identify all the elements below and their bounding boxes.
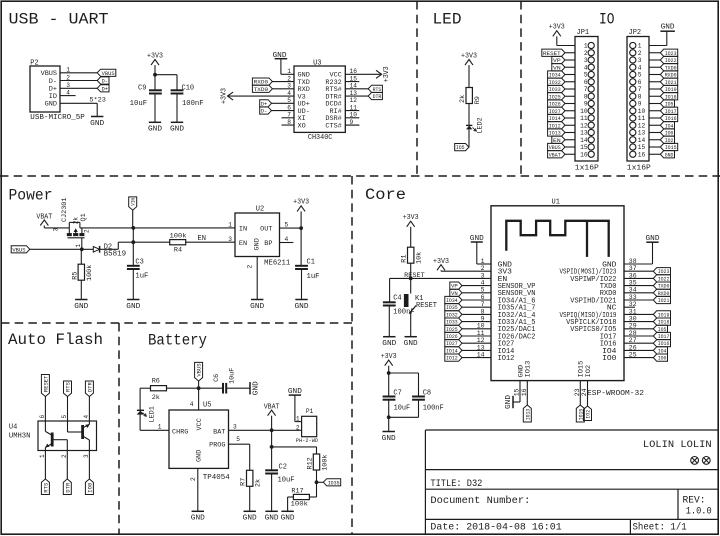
svg-text:LED: LED bbox=[433, 11, 462, 29]
svg-text:RXD0: RXD0 bbox=[658, 290, 670, 297]
svg-text:C7: C7 bbox=[393, 389, 401, 397]
svg-text:Battery: Battery bbox=[148, 332, 207, 350]
svg-text:12: 12 bbox=[350, 97, 358, 104]
svg-text:VBUS: VBUS bbox=[12, 246, 26, 253]
svg-text:IO14: IO14 bbox=[446, 347, 458, 354]
svg-text:R4: R4 bbox=[174, 247, 182, 255]
svg-text:5*23: 5*23 bbox=[89, 97, 106, 104]
svg-text:IO18: IO18 bbox=[658, 319, 670, 326]
svg-text:U4: U4 bbox=[9, 424, 17, 432]
svg-text:13: 13 bbox=[580, 130, 588, 137]
svg-text:IO21: IO21 bbox=[658, 297, 670, 304]
svg-text:R1: R1 bbox=[401, 255, 409, 263]
svg-text:VBUS: VBUS bbox=[41, 70, 57, 77]
svg-text:1uF: 1uF bbox=[135, 272, 148, 280]
svg-text:VBAT: VBAT bbox=[549, 151, 561, 158]
svg-text:IO14: IO14 bbox=[549, 115, 561, 122]
svg-text:15: 15 bbox=[580, 144, 588, 151]
svg-text:3: 3 bbox=[584, 57, 588, 64]
svg-text:R7: R7 bbox=[240, 478, 248, 486]
svg-text:IO27: IO27 bbox=[446, 340, 458, 347]
svg-text:IO26: IO26 bbox=[549, 101, 561, 108]
svg-text:IO33: IO33 bbox=[446, 319, 458, 326]
svg-text:10: 10 bbox=[638, 108, 646, 115]
svg-text:REV:: REV: bbox=[683, 495, 706, 506]
svg-text:VCC: VCC bbox=[330, 72, 342, 79]
svg-text:9: 9 bbox=[638, 101, 642, 108]
svg-text:VN: VN bbox=[451, 290, 458, 297]
svg-text:100k: 100k bbox=[170, 232, 187, 240]
svg-text:1: 1 bbox=[75, 244, 82, 248]
svg-text:UD-: UD- bbox=[298, 108, 310, 115]
svg-text:IO35: IO35 bbox=[328, 479, 340, 486]
svg-text:4: 4 bbox=[190, 401, 194, 408]
svg-text:1: 1 bbox=[228, 222, 232, 229]
svg-text:100k: 100k bbox=[321, 454, 329, 470]
svg-text:IO13: IO13 bbox=[524, 409, 531, 421]
svg-text:R6: R6 bbox=[152, 377, 160, 385]
svg-text:VIN: VIN bbox=[130, 198, 137, 206]
svg-text:EN: EN bbox=[239, 240, 247, 247]
svg-text:IO0: IO0 bbox=[86, 482, 93, 493]
svg-text:LED2: LED2 bbox=[477, 117, 485, 133]
svg-text:+3V3: +3V3 bbox=[293, 199, 309, 207]
svg-text:GND: GND bbox=[170, 126, 184, 134]
svg-text:R5: R5 bbox=[71, 272, 79, 280]
svg-text:IO27: IO27 bbox=[549, 108, 561, 115]
svg-text:IO32: IO32 bbox=[446, 311, 458, 318]
svg-text:C9: C9 bbox=[138, 85, 146, 93]
svg-text:IO12: IO12 bbox=[446, 355, 458, 362]
svg-text:JP1: JP1 bbox=[577, 29, 590, 37]
svg-text:IO0: IO0 bbox=[658, 355, 667, 362]
svg-text:3: 3 bbox=[83, 454, 90, 458]
svg-text:UD+: UD+ bbox=[298, 101, 310, 108]
svg-text:GND: GND bbox=[505, 395, 513, 409]
svg-text:6: 6 bbox=[638, 79, 642, 86]
svg-text:8: 8 bbox=[584, 93, 588, 100]
svg-text:+3V3: +3V3 bbox=[383, 66, 391, 82]
svg-text:DSR#: DSR# bbox=[325, 115, 341, 122]
svg-text:GND: GND bbox=[191, 515, 205, 523]
svg-text:C2: C2 bbox=[279, 464, 287, 472]
svg-text:4: 4 bbox=[83, 415, 90, 419]
svg-text:100nF: 100nF bbox=[423, 405, 444, 413]
svg-text:1x16P: 1x16P bbox=[627, 164, 651, 172]
svg-text:UMH3N: UMH3N bbox=[9, 433, 30, 441]
svg-text:IO2: IO2 bbox=[585, 364, 592, 377]
svg-text:DTR#: DTR# bbox=[325, 93, 341, 100]
svg-text:IO32: IO32 bbox=[549, 79, 561, 86]
svg-text:7: 7 bbox=[584, 86, 588, 93]
svg-text:14: 14 bbox=[580, 137, 588, 144]
svg-text:GND: GND bbox=[90, 120, 104, 128]
svg-text:1: 1 bbox=[39, 454, 46, 458]
svg-text:PROG: PROG bbox=[209, 442, 225, 449]
svg-text:12: 12 bbox=[638, 122, 646, 129]
svg-text:6: 6 bbox=[584, 79, 588, 86]
svg-text:OUT: OUT bbox=[260, 225, 272, 232]
svg-text:4: 4 bbox=[584, 64, 588, 71]
svg-text:+3V3: +3V3 bbox=[403, 214, 419, 222]
svg-text:V3: V3 bbox=[298, 93, 306, 100]
svg-text:R12: R12 bbox=[307, 457, 315, 469]
svg-text:IO25: IO25 bbox=[446, 326, 458, 333]
svg-text:+3V3: +3V3 bbox=[433, 258, 449, 266]
svg-text:1x16P: 1x16P bbox=[575, 164, 599, 172]
svg-text:VBUS: VBUS bbox=[549, 144, 561, 151]
svg-text:12: 12 bbox=[580, 122, 588, 129]
svg-text:Sheet: 1/1: Sheet: 1/1 bbox=[633, 521, 687, 533]
svg-text:GND: GND bbox=[661, 24, 675, 32]
svg-text:C3: C3 bbox=[135, 259, 143, 267]
svg-text:RXD0: RXD0 bbox=[665, 72, 677, 79]
svg-text:GND: GND bbox=[404, 340, 418, 348]
svg-text:10uF: 10uF bbox=[229, 368, 237, 384]
svg-text:IO22: IO22 bbox=[658, 275, 670, 282]
svg-text:CTS#: CTS# bbox=[325, 122, 341, 129]
svg-text:5: 5 bbox=[61, 415, 68, 419]
svg-text:EN: EN bbox=[553, 137, 561, 144]
svg-text:15: 15 bbox=[638, 144, 646, 151]
svg-text:GND: GND bbox=[470, 235, 484, 243]
svg-text:TXD0: TXD0 bbox=[658, 283, 670, 290]
svg-text:IN: IN bbox=[239, 225, 247, 232]
svg-text:VBUS: VBUS bbox=[102, 70, 116, 77]
svg-text:Q1: Q1 bbox=[80, 213, 88, 221]
svg-text:ME6211: ME6211 bbox=[264, 259, 290, 267]
svg-text:DTR: DTR bbox=[86, 381, 93, 392]
svg-text:GND: GND bbox=[665, 151, 674, 158]
svg-text:EN: EN bbox=[198, 235, 207, 243]
svg-text:2: 2 bbox=[584, 50, 588, 57]
svg-text:IO4: IO4 bbox=[658, 347, 667, 354]
svg-text:TP4054: TP4054 bbox=[203, 474, 230, 482]
svg-text:GND: GND bbox=[646, 235, 660, 243]
svg-text:GND: GND bbox=[382, 340, 396, 348]
svg-text:R9: R9 bbox=[474, 96, 482, 104]
svg-text:2: 2 bbox=[638, 50, 642, 57]
svg-text:RTS: RTS bbox=[373, 86, 382, 93]
svg-text:IO17: IO17 bbox=[665, 108, 677, 115]
svg-text:IO22: IO22 bbox=[665, 57, 677, 64]
svg-text:8: 8 bbox=[638, 93, 642, 100]
svg-text:IO15: IO15 bbox=[578, 360, 585, 377]
svg-text:IO0: IO0 bbox=[602, 355, 616, 363]
svg-text:IO17: IO17 bbox=[658, 333, 670, 340]
svg-text:DTR: DTR bbox=[373, 93, 382, 100]
svg-text:BP: BP bbox=[264, 240, 272, 247]
svg-text:U5: U5 bbox=[203, 402, 211, 410]
svg-text:CHRG: CHRG bbox=[172, 428, 188, 435]
svg-text:TXD0: TXD0 bbox=[665, 64, 677, 71]
svg-text:13: 13 bbox=[638, 130, 646, 137]
svg-text:IO5: IO5 bbox=[456, 144, 465, 151]
svg-text:100nF: 100nF bbox=[182, 100, 204, 108]
svg-text:IO35: IO35 bbox=[446, 304, 458, 311]
svg-text:C8: C8 bbox=[423, 389, 431, 397]
svg-text:4: 4 bbox=[638, 64, 642, 71]
svg-text:1.0.0: 1.0.0 bbox=[686, 506, 712, 517]
svg-text:GND: GND bbox=[148, 126, 162, 134]
svg-text:GND: GND bbox=[254, 238, 261, 250]
svg-text:16: 16 bbox=[580, 151, 588, 158]
svg-text:IO16: IO16 bbox=[665, 115, 677, 122]
svg-text:U2: U2 bbox=[256, 206, 264, 214]
svg-text:7: 7 bbox=[638, 86, 642, 93]
svg-text:IO33: IO33 bbox=[549, 86, 561, 93]
svg-text:+3V3: +3V3 bbox=[549, 24, 565, 32]
svg-text:10k: 10k bbox=[416, 252, 424, 264]
svg-text:11: 11 bbox=[580, 115, 588, 122]
svg-text:CJ2301: CJ2301 bbox=[61, 198, 69, 222]
svg-text:GND: GND bbox=[243, 515, 257, 523]
svg-text:11: 11 bbox=[638, 115, 646, 122]
svg-text:5: 5 bbox=[638, 72, 642, 79]
svg-text:2: 2 bbox=[190, 477, 197, 481]
svg-text:D-: D- bbox=[261, 108, 267, 115]
svg-text:IO16: IO16 bbox=[658, 340, 670, 347]
svg-text:100k: 100k bbox=[291, 501, 309, 509]
svg-text:GND: GND bbox=[74, 303, 88, 311]
svg-text:CH340C: CH340C bbox=[308, 134, 333, 142]
svg-text:RXD0: RXD0 bbox=[254, 79, 269, 86]
svg-text:2k: 2k bbox=[459, 95, 467, 103]
svg-text:GND: GND bbox=[45, 101, 57, 108]
svg-text:IO12: IO12 bbox=[498, 355, 515, 363]
svg-text:1uF: 1uF bbox=[307, 273, 320, 281]
svg-text:C6: C6 bbox=[213, 374, 221, 382]
svg-text:IO21: IO21 bbox=[665, 79, 677, 86]
svg-text:BAT: BAT bbox=[213, 428, 225, 435]
svg-text:IO: IO bbox=[599, 10, 615, 28]
svg-text:IO18: IO18 bbox=[665, 93, 677, 100]
svg-text:3: 3 bbox=[481, 272, 485, 279]
svg-text:10uF: 10uF bbox=[130, 100, 148, 108]
svg-text:1: 1 bbox=[584, 43, 588, 50]
svg-text:P2: P2 bbox=[30, 59, 38, 67]
svg-text:3: 3 bbox=[53, 228, 60, 232]
svg-text:+3V3: +3V3 bbox=[220, 88, 228, 104]
svg-text:+3V3: +3V3 bbox=[381, 353, 397, 361]
svg-text:PH-2-WD: PH-2-WD bbox=[296, 437, 319, 444]
svg-text:100k: 100k bbox=[86, 265, 94, 281]
svg-text:ID: ID bbox=[49, 93, 57, 100]
svg-text:IO5: IO5 bbox=[665, 101, 674, 108]
svg-text:USB-MICRO_5P: USB-MICRO_5P bbox=[30, 114, 85, 122]
svg-text:Date: 2018-04-08 16:01: Date: 2018-04-08 16:01 bbox=[430, 522, 561, 533]
svg-text:GND: GND bbox=[517, 364, 524, 377]
svg-text:DCD#: DCD# bbox=[325, 101, 341, 108]
svg-text:10uF: 10uF bbox=[394, 405, 411, 413]
svg-text:B5819: B5819 bbox=[104, 251, 126, 259]
svg-text:GND: GND bbox=[250, 303, 264, 311]
svg-text:TITLE: D32: TITLE: D32 bbox=[430, 479, 482, 490]
svg-text:3: 3 bbox=[638, 57, 642, 64]
svg-text:IO15: IO15 bbox=[665, 144, 677, 151]
svg-text:TXD0: TXD0 bbox=[254, 86, 269, 93]
svg-text:2: 2 bbox=[84, 229, 91, 233]
svg-text:D+: D+ bbox=[49, 86, 57, 93]
svg-text:GND: GND bbox=[382, 435, 396, 443]
svg-text:RESET: RESET bbox=[416, 302, 437, 310]
svg-text:IO13: IO13 bbox=[549, 130, 561, 137]
svg-text:GND: GND bbox=[126, 303, 140, 311]
svg-text:D-: D- bbox=[102, 78, 108, 85]
svg-text:Power: Power bbox=[9, 187, 53, 205]
svg-text:IO0: IO0 bbox=[665, 130, 674, 137]
svg-text:R232: R232 bbox=[325, 79, 341, 86]
svg-text:C4: C4 bbox=[393, 295, 401, 303]
svg-text:TXD: TXD bbox=[298, 79, 310, 86]
svg-text:VN: VN bbox=[553, 64, 561, 71]
svg-text:GND: GND bbox=[196, 450, 203, 462]
svg-text:IO5: IO5 bbox=[658, 326, 667, 333]
svg-text:14: 14 bbox=[638, 137, 646, 144]
svg-text:LED1: LED1 bbox=[149, 406, 157, 422]
svg-text:JP2: JP2 bbox=[629, 29, 642, 37]
svg-text:VP: VP bbox=[451, 283, 458, 290]
svg-text:IO34: IO34 bbox=[549, 72, 561, 79]
svg-text:VBUS: VBUS bbox=[196, 363, 203, 377]
svg-text:IO13: IO13 bbox=[525, 360, 532, 377]
svg-text:5: 5 bbox=[236, 436, 240, 443]
svg-text:IO23: IO23 bbox=[665, 50, 677, 57]
svg-text:9: 9 bbox=[584, 101, 588, 108]
svg-text:D-: D- bbox=[49, 78, 57, 85]
svg-text:ESP-WROOM-32: ESP-WROOM-32 bbox=[587, 390, 644, 398]
svg-text:2k: 2k bbox=[152, 394, 160, 402]
svg-text:IO2: IO2 bbox=[585, 410, 592, 419]
svg-text:2k: 2k bbox=[255, 479, 263, 487]
svg-text:RTS#: RTS# bbox=[325, 86, 341, 93]
svg-text:GND: GND bbox=[253, 381, 261, 395]
svg-text:IO25: IO25 bbox=[549, 93, 561, 100]
svg-text:IO19: IO19 bbox=[665, 86, 677, 93]
svg-text:16: 16 bbox=[638, 151, 646, 158]
svg-text:IO34: IO34 bbox=[446, 297, 458, 304]
svg-text:IO26: IO26 bbox=[446, 333, 458, 340]
svg-text:IO2: IO2 bbox=[665, 137, 674, 144]
svg-text:LOLIN LOLIN: LOLIN LOLIN bbox=[643, 439, 712, 451]
svg-text:C1: C1 bbox=[307, 259, 315, 267]
svg-text:2k: 2k bbox=[73, 217, 80, 225]
svg-text:RXD: RXD bbox=[298, 86, 310, 93]
svg-text:P1: P1 bbox=[306, 408, 314, 415]
svg-text:U3: U3 bbox=[313, 59, 321, 67]
svg-text:XI: XI bbox=[298, 115, 306, 122]
svg-text:Document Number:: Document Number: bbox=[430, 495, 530, 507]
svg-text:XO: XO bbox=[298, 122, 306, 129]
svg-text:RESET: RESET bbox=[404, 272, 425, 280]
svg-text:2: 2 bbox=[247, 265, 254, 269]
svg-text:1: 1 bbox=[158, 423, 162, 430]
svg-text:D+: D+ bbox=[102, 85, 109, 92]
svg-text:R17: R17 bbox=[291, 488, 303, 496]
svg-text:VP: VP bbox=[553, 57, 561, 64]
svg-text:3: 3 bbox=[233, 423, 237, 430]
svg-text:3: 3 bbox=[228, 236, 232, 243]
svg-text:+3V3: +3V3 bbox=[461, 52, 477, 60]
svg-text:RESET: RESET bbox=[543, 50, 561, 57]
svg-text:100nF: 100nF bbox=[393, 309, 415, 317]
svg-text:IO23: IO23 bbox=[658, 268, 670, 275]
svg-text:IO12: IO12 bbox=[549, 122, 561, 129]
svg-text:IO4: IO4 bbox=[665, 122, 674, 129]
svg-text:GND: GND bbox=[298, 72, 310, 79]
svg-text:DTR: DTR bbox=[64, 482, 71, 493]
svg-text:GND: GND bbox=[265, 515, 279, 523]
svg-text:GND: GND bbox=[281, 515, 295, 523]
svg-text:2: 2 bbox=[296, 424, 300, 431]
svg-text:RTS: RTS bbox=[65, 381, 72, 392]
svg-text:RTS: RTS bbox=[42, 482, 49, 493]
svg-text:10uF: 10uF bbox=[278, 477, 295, 485]
svg-text:6: 6 bbox=[39, 415, 46, 419]
svg-text:USB - UART: USB - UART bbox=[9, 11, 109, 29]
svg-text:U1: U1 bbox=[552, 199, 560, 207]
svg-text:C10: C10 bbox=[182, 85, 195, 93]
svg-text:10: 10 bbox=[580, 108, 588, 115]
svg-text:Core: Core bbox=[365, 186, 406, 204]
svg-text:1: 1 bbox=[638, 43, 642, 50]
svg-text:D+: D+ bbox=[261, 100, 268, 107]
svg-text:RESET: RESET bbox=[42, 375, 49, 392]
svg-text:GND: GND bbox=[295, 303, 309, 311]
svg-text:5: 5 bbox=[584, 72, 588, 79]
svg-text:+3V3: +3V3 bbox=[147, 52, 163, 60]
svg-text:IO19: IO19 bbox=[658, 311, 670, 318]
svg-text:VCC: VCC bbox=[196, 418, 203, 430]
svg-text:2: 2 bbox=[61, 454, 68, 458]
svg-text:Auto Flash: Auto Flash bbox=[8, 331, 103, 349]
svg-text:RI#: RI# bbox=[330, 108, 342, 115]
